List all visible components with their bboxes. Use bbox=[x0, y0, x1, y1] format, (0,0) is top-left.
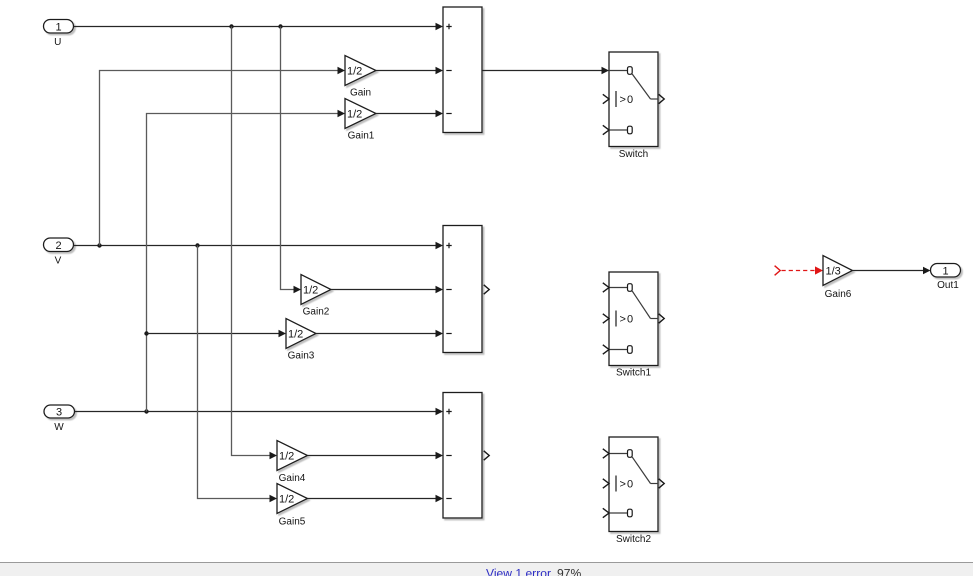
arrowhead into Gain bbox=[338, 67, 346, 75]
red arrowhead into Gain6 bbox=[815, 266, 823, 274]
threshold bar bbox=[615, 311, 617, 327]
unconnected input chevron port 2 bbox=[603, 94, 609, 103]
svg-text:Gain6: Gain6 bbox=[825, 289, 852, 300]
svg-text:1/2: 1/2 bbox=[279, 494, 294, 506]
junction on U line at x=231.5 bbox=[229, 24, 233, 28]
svg-text:>: > bbox=[620, 479, 626, 491]
gain Gain1 (1/2) bbox=[345, 99, 376, 142]
port 1 contact bbox=[628, 284, 633, 292]
arrowhead into Sum2 + input bbox=[436, 408, 444, 416]
minus sign port 3 bbox=[446, 333, 451, 335]
gain Gain2 (1/2) bbox=[301, 275, 331, 318]
wire branch U to Gain4 (vertical x=231.5) bbox=[232, 27, 278, 460]
wire branch W to Gain1 (vertical x=146) bbox=[144, 110, 345, 412]
junction on W line at x=146 bbox=[144, 409, 148, 413]
svg-text:1: 1 bbox=[942, 265, 948, 277]
sum block Sum2 (bottom) bbox=[443, 393, 489, 519]
svg-text:0: 0 bbox=[627, 314, 633, 326]
wire Gain6 to Out1 bbox=[853, 267, 931, 275]
svg-text:Switch: Switch bbox=[619, 149, 648, 160]
wire V line from In2 to Sum1 bbox=[74, 242, 444, 250]
arrowhead into Gain5 bbox=[270, 495, 278, 503]
unconnected input chevron port 3 bbox=[603, 345, 609, 354]
arrowhead into Gain3 bbox=[279, 330, 287, 338]
inport In3 (W) bbox=[44, 405, 75, 433]
threshold bar bbox=[615, 91, 617, 107]
junction on U line at x=280.5 bbox=[278, 24, 282, 28]
svg-text:0: 0 bbox=[627, 94, 633, 106]
svg-text:1/2: 1/2 bbox=[347, 66, 362, 78]
svg-text:W: W bbox=[54, 422, 64, 433]
switch lever diagonal bbox=[632, 457, 650, 484]
wire W line from In3 to Sum2 bbox=[75, 408, 444, 416]
arrowhead into Gain1 bbox=[338, 110, 346, 118]
unconnected input chevron port 1 bbox=[603, 449, 609, 458]
port 3 contact bbox=[628, 126, 633, 134]
outport Out1 bbox=[931, 264, 961, 292]
unconnected output chevron bbox=[659, 314, 665, 323]
wire branch V to Gain (vertical x=99.5) bbox=[100, 67, 346, 246]
gain Gain5 (1/2) bbox=[277, 484, 308, 528]
internal lead port 3 bbox=[609, 349, 628, 351]
svg-text:>: > bbox=[620, 94, 626, 106]
minus sign port 3 bbox=[446, 113, 451, 115]
junction on V line at x=197.5 bbox=[195, 243, 199, 247]
unconnected output chevron bbox=[484, 451, 490, 460]
wire Gain2 to Sum1 second input bbox=[331, 286, 443, 294]
plus sign port 1 bbox=[446, 24, 451, 29]
status bar bbox=[0, 563, 973, 576]
svg-text:Gain3: Gain3 bbox=[288, 351, 315, 362]
plus sign port 1 bbox=[446, 243, 451, 248]
svg-text:>: > bbox=[620, 314, 626, 326]
internal lead port 3 bbox=[609, 512, 628, 514]
wire Gain to Sum second input bbox=[376, 67, 443, 75]
svg-text:Gain: Gain bbox=[350, 88, 371, 99]
wire Gain3 to Sum1 third input bbox=[316, 330, 443, 338]
unconnected input chevron port 3 bbox=[603, 508, 609, 517]
svg-text:Switch1: Switch1 bbox=[616, 368, 651, 379]
svg-text:Gain4: Gain4 bbox=[279, 473, 306, 484]
internal lead to output bbox=[651, 98, 659, 100]
svg-text:2: 2 bbox=[55, 240, 61, 252]
svg-text:Gain2: Gain2 bbox=[303, 307, 330, 318]
sum block Sum (top) bbox=[443, 7, 482, 133]
wire Sum output to Switch bbox=[482, 67, 609, 75]
inport In1 (U) bbox=[44, 20, 74, 49]
port 1 contact bbox=[628, 450, 633, 458]
unconnected input chevron port 1 bbox=[603, 283, 609, 292]
port 1 contact bbox=[628, 67, 633, 75]
internal lead to output bbox=[651, 483, 659, 485]
gain Gain6 (1/3) bbox=[823, 256, 853, 301]
inport In2 (V) bbox=[44, 238, 74, 267]
wire Gain5 to Sum2 third input bbox=[308, 495, 444, 503]
svg-text:1/2: 1/2 bbox=[279, 451, 294, 463]
wire Gain1 to Sum third input bbox=[376, 110, 443, 118]
unconnected input chevron port 2 bbox=[603, 314, 609, 323]
svg-text:Gain1: Gain1 bbox=[348, 131, 375, 142]
port 3 contact bbox=[628, 509, 633, 517]
minus sign port 2 bbox=[446, 289, 451, 291]
wire U line from In1 to Sum bbox=[74, 23, 444, 31]
sum block Sum1 (middle) bbox=[443, 226, 489, 353]
svg-text:1/2: 1/2 bbox=[303, 285, 318, 297]
svg-text:Switch2: Switch2 bbox=[616, 534, 651, 545]
gain Gain (1/2) bbox=[345, 56, 376, 99]
switch block Switch1 bbox=[603, 272, 664, 379]
arrowhead into Sum + input bbox=[436, 23, 444, 31]
switch block Switch2 bbox=[603, 437, 664, 545]
arrowhead into Gain4 bbox=[270, 452, 278, 460]
port 3 contact bbox=[628, 346, 633, 354]
unconnected red source chevron bbox=[775, 266, 781, 276]
unconnected output chevron bbox=[659, 479, 665, 488]
internal lead port 1 bbox=[609, 287, 628, 289]
minus sign port 2 bbox=[446, 70, 451, 72]
junction at (146,333) bbox=[144, 331, 148, 335]
svg-text:0: 0 bbox=[627, 479, 633, 491]
unconnected input chevron port 3 bbox=[603, 125, 609, 134]
internal lead port 1 bbox=[609, 453, 628, 455]
wire branch V to Gain5 (vertical x=197.5) bbox=[198, 246, 278, 503]
unconnected input chevron port 2 bbox=[603, 479, 609, 488]
junction on V line at x=99.5 bbox=[97, 243, 101, 247]
internal lead port 1 bbox=[609, 70, 628, 72]
switch block Switch bbox=[603, 52, 664, 160]
threshold bar bbox=[615, 476, 617, 492]
svg-text:1/2: 1/2 bbox=[347, 109, 362, 121]
minus sign port 2 bbox=[446, 455, 451, 457]
svg-text:Out1: Out1 bbox=[937, 280, 959, 291]
plus sign port 1 bbox=[446, 409, 451, 414]
wire branch to Gain3 bbox=[147, 333, 282, 335]
svg-text:3: 3 bbox=[56, 407, 62, 419]
unconnected output chevron bbox=[659, 94, 665, 103]
minus sign port 3 bbox=[446, 498, 451, 500]
svg-text:U: U bbox=[54, 37, 61, 48]
arrowhead into Gain2 bbox=[294, 286, 302, 294]
gain Gain3 (1/2) bbox=[286, 319, 316, 362]
svg-text:1: 1 bbox=[55, 21, 61, 33]
svg-text:1/3: 1/3 bbox=[826, 266, 841, 278]
internal lead to output bbox=[651, 318, 659, 320]
unconnected output chevron bbox=[484, 285, 490, 294]
switch lever diagonal bbox=[632, 74, 650, 99]
switch lever diagonal bbox=[632, 291, 650, 319]
red dashed wire into Gain6 bbox=[782, 270, 815, 272]
internal lead port 3 bbox=[609, 129, 628, 131]
svg-text:View 1 error, 97%: View 1 error, 97% bbox=[486, 567, 581, 576]
svg-text:1/2: 1/2 bbox=[288, 329, 303, 341]
wire Gain4 to Sum2 second input bbox=[308, 452, 444, 460]
svg-text:V: V bbox=[55, 256, 62, 267]
wire branch U to Gain2 (vertical x=280.5) bbox=[281, 27, 302, 294]
gain Gain4 (1/2) bbox=[277, 441, 308, 485]
arrowhead into Sum1 + input bbox=[436, 242, 444, 250]
svg-text:Gain5: Gain5 bbox=[279, 517, 306, 528]
